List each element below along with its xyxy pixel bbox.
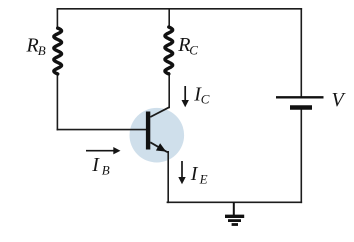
svg-text:E: E xyxy=(199,171,208,186)
svg-text:I: I xyxy=(91,154,100,176)
svg-text:B: B xyxy=(38,43,46,58)
svg-text:R: R xyxy=(26,35,39,57)
svg-text:B: B xyxy=(102,163,110,178)
svg-text:C: C xyxy=(189,43,198,58)
svg-text:I: I xyxy=(190,163,199,185)
svg-text:C: C xyxy=(201,92,210,107)
